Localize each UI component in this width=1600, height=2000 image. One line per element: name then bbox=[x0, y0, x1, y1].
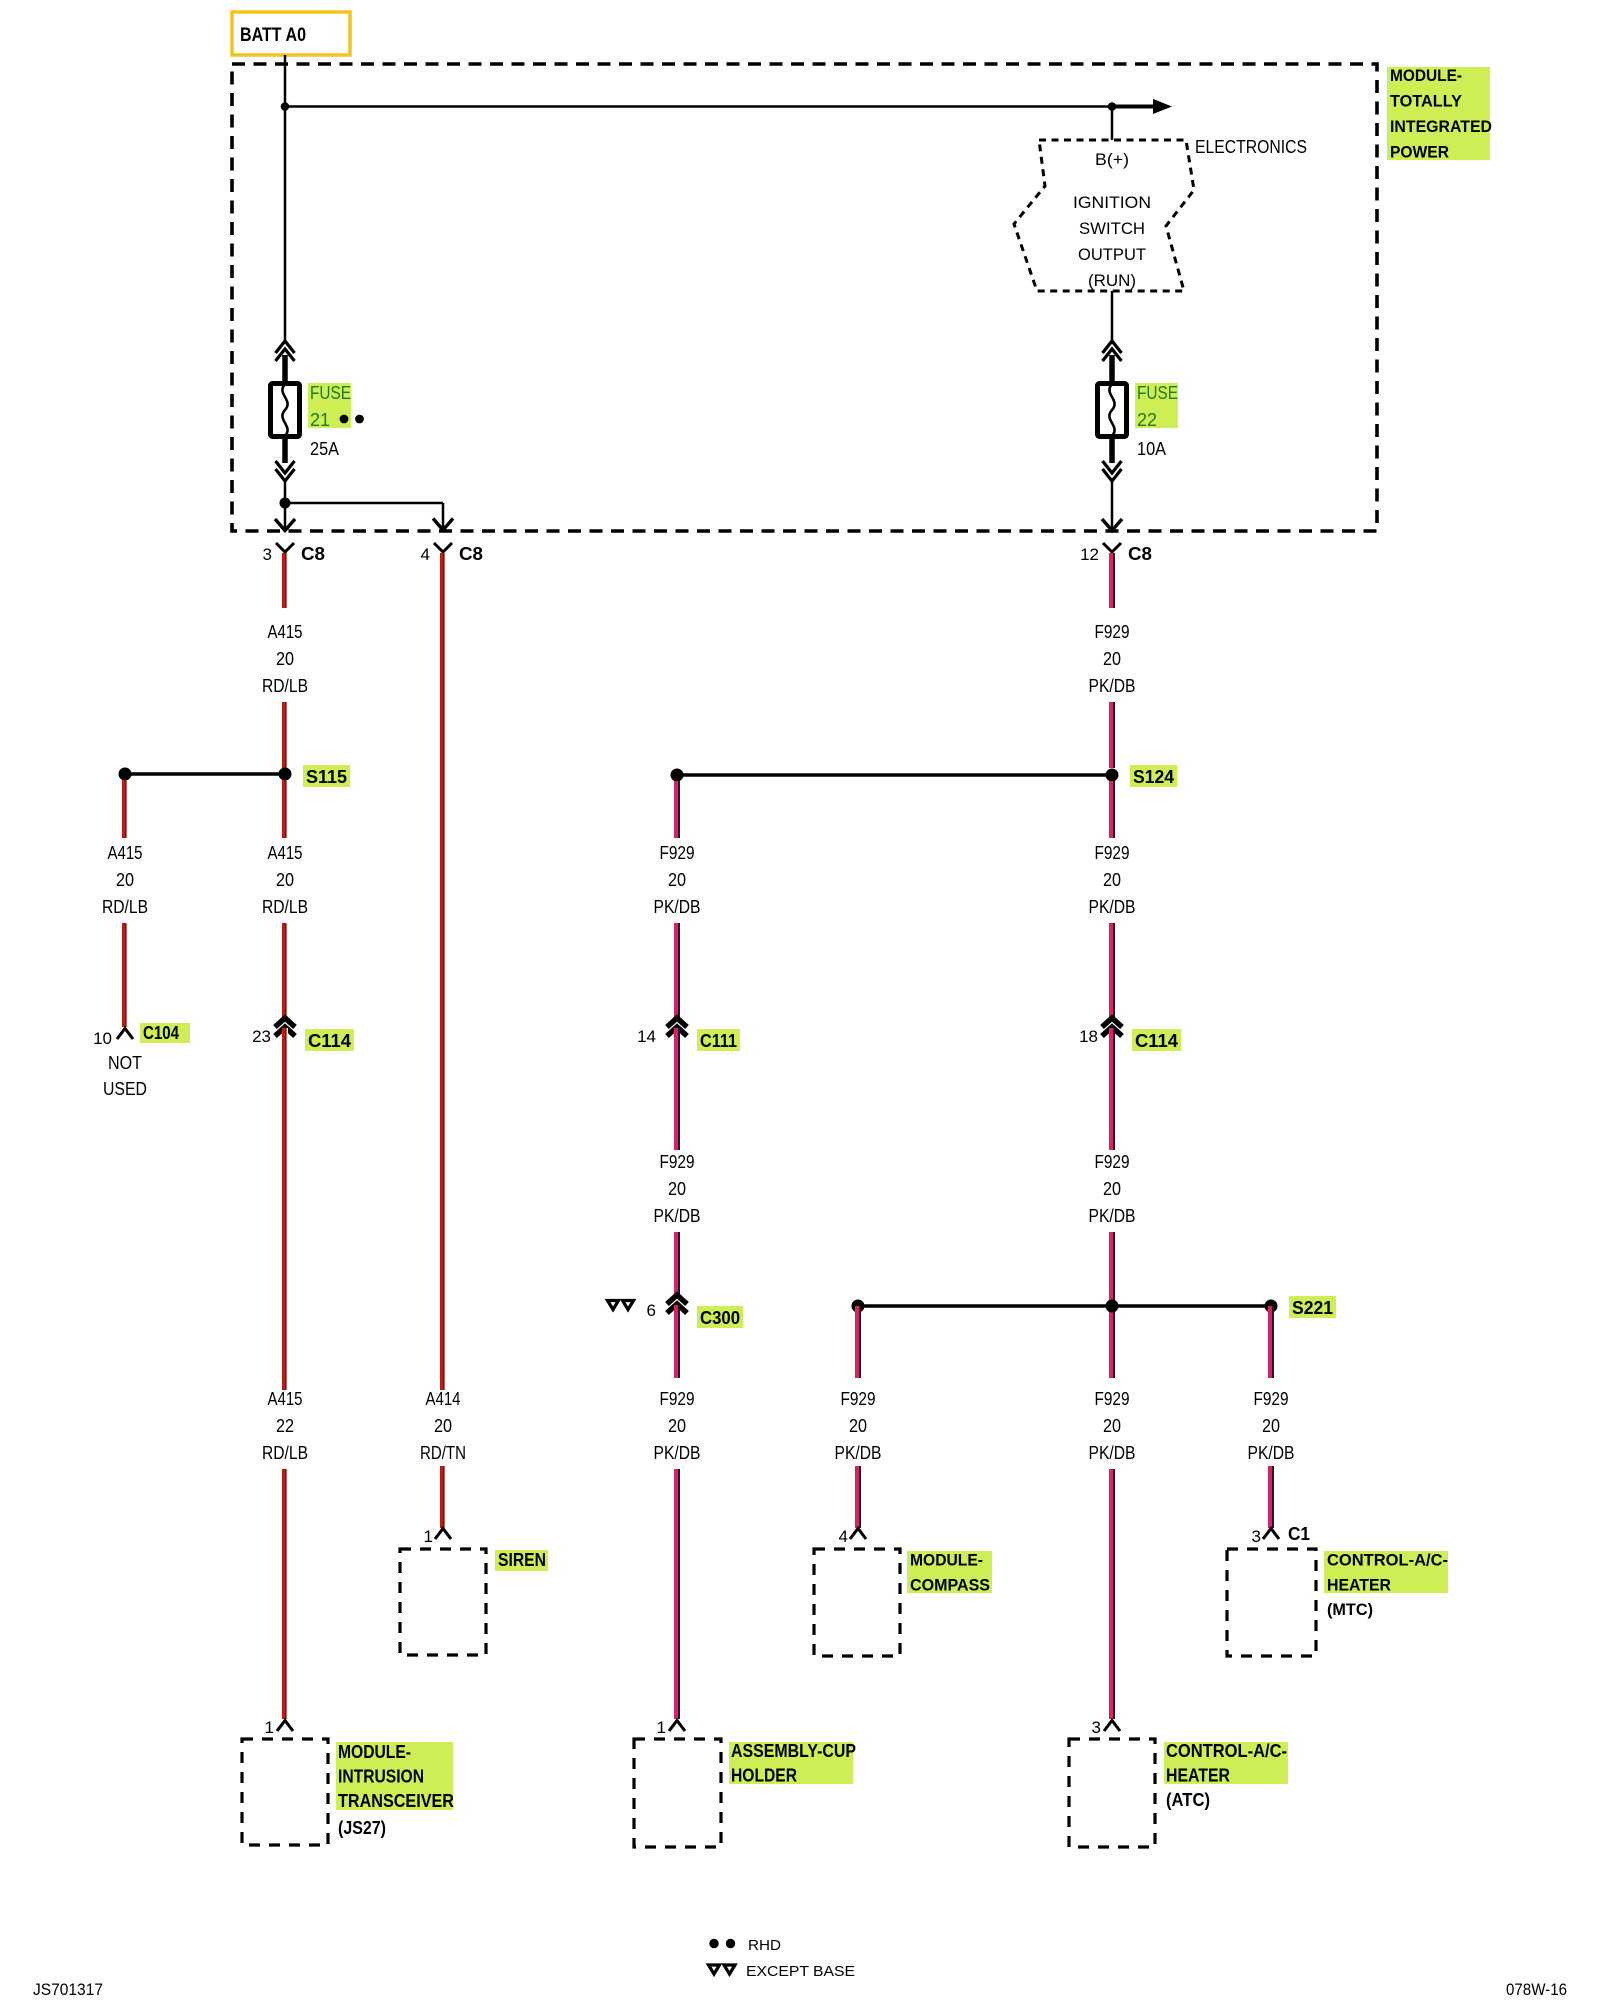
svg-text:RD/TN: RD/TN bbox=[420, 1443, 466, 1463]
svg-text:C114: C114 bbox=[1135, 1031, 1178, 1051]
wire bbox=[855, 1306, 861, 1378]
svg-text:JS701317: JS701317 bbox=[33, 1980, 103, 1999]
control-A/C-heater MTC box bbox=[1227, 1549, 1316, 1656]
svg-text:21: 21 bbox=[310, 410, 330, 430]
wire arrow to electronics bbox=[1112, 99, 1172, 114]
svg-text:20: 20 bbox=[668, 1416, 686, 1436]
battery feed label BATT A0 bbox=[232, 12, 350, 55]
svg-text:20: 20 bbox=[668, 870, 686, 890]
wire bbox=[282, 702, 288, 768]
svg-text:10: 10 bbox=[93, 1029, 112, 1048]
svg-text:C300: C300 bbox=[700, 1308, 740, 1328]
legend EXCEPT BASE bbox=[709, 1963, 856, 1980]
svg-text:23: 23 bbox=[252, 1027, 271, 1046]
wire label A415 20 RD/LB bbox=[262, 843, 308, 917]
wire bbox=[282, 923, 288, 1018]
svg-text:1: 1 bbox=[424, 1527, 433, 1546]
svg-text:SIREN: SIREN bbox=[498, 1550, 546, 1570]
svg-text:18: 18 bbox=[1079, 1027, 1098, 1046]
svg-text:A415: A415 bbox=[268, 622, 303, 642]
svg-text:22: 22 bbox=[1137, 410, 1157, 430]
connector label C114 bbox=[305, 1029, 354, 1051]
svg-text:PK/DB: PK/DB bbox=[654, 897, 701, 917]
svg-text:EXCEPT BASE: EXCEPT BASE bbox=[746, 1963, 855, 1980]
svg-text:20: 20 bbox=[668, 1179, 686, 1199]
svg-text:(JS27): (JS27) bbox=[338, 1818, 386, 1838]
svg-text:20: 20 bbox=[276, 870, 294, 890]
siren box bbox=[400, 1549, 486, 1655]
svg-text:PK/DB: PK/DB bbox=[1089, 1443, 1136, 1463]
svg-text:C8: C8 bbox=[301, 544, 325, 564]
connector label C114 bbox=[1132, 1029, 1181, 1051]
svg-text:C104: C104 bbox=[143, 1023, 179, 1043]
connector pin 1 of siren bbox=[424, 1527, 451, 1546]
svg-text:ELECTRONICS: ELECTRONICS bbox=[1195, 137, 1307, 157]
wire bbox=[674, 1028, 680, 1150]
svg-text:MODULE-: MODULE- bbox=[1390, 66, 1462, 85]
svg-text:IGNITION: IGNITION bbox=[1073, 193, 1151, 212]
svg-text:S115: S115 bbox=[306, 767, 347, 787]
svg-text:20: 20 bbox=[116, 870, 134, 890]
wire A415 22 RD/LB long run bbox=[282, 1028, 288, 1390]
RHD dots next to fuse 21 bbox=[340, 415, 349, 424]
wire into ignition switch output bbox=[1111, 107, 1114, 141]
svg-text:F929: F929 bbox=[660, 843, 695, 863]
svg-text:B(+): B(+) bbox=[1095, 150, 1129, 169]
wire bbox=[440, 1466, 446, 1528]
wire bbox=[1109, 781, 1115, 838]
wire label F929 20 PK/DB bbox=[1089, 622, 1136, 696]
connector C111 pin 14 bbox=[637, 1018, 687, 1046]
svg-text:MODULE-: MODULE- bbox=[338, 1742, 411, 1762]
svg-text:20: 20 bbox=[1103, 649, 1121, 669]
assembly-cup holder box bbox=[634, 1739, 721, 1847]
wire bbox=[1109, 702, 1115, 768]
module-intrusion transceiver box bbox=[242, 1739, 328, 1845]
svg-text:C114: C114 bbox=[308, 1031, 351, 1051]
svg-text:20: 20 bbox=[276, 649, 294, 669]
svg-text:20: 20 bbox=[1262, 1416, 1280, 1436]
wire label F929 20 PK/DB bbox=[654, 1152, 701, 1226]
wire branch from fuse 21 to pin 4 bbox=[285, 503, 443, 528]
connector C8 pin 3 bbox=[263, 543, 325, 564]
svg-text:F929: F929 bbox=[1095, 1389, 1130, 1409]
wire label F929 20 PK/DB bbox=[1089, 1152, 1136, 1226]
wire label A415 20 RD/LB bbox=[262, 622, 308, 696]
label CONTROL-A/C-HEATER (MTC) bbox=[1324, 1551, 1448, 1620]
svg-text:FUSE: FUSE bbox=[310, 383, 351, 403]
wire label F929 20 PK/DB bbox=[1248, 1389, 1295, 1463]
svg-text:FUSE: FUSE bbox=[1137, 383, 1178, 403]
svg-text:PK/DB: PK/DB bbox=[654, 1443, 701, 1463]
splice label S221 bbox=[1289, 1296, 1336, 1318]
svg-text:10A: 10A bbox=[1137, 439, 1166, 459]
svg-text:INTRUSION: INTRUSION bbox=[338, 1767, 424, 1787]
svg-text:COMPASS: COMPASS bbox=[910, 1576, 990, 1595]
svg-text:A415: A415 bbox=[108, 843, 143, 863]
svg-text:(MTC): (MTC) bbox=[1327, 1600, 1373, 1619]
svg-text:20: 20 bbox=[849, 1416, 867, 1436]
connector C1 pin 3 of A/C heater MTC bbox=[1252, 1524, 1310, 1546]
splice S115 bbox=[119, 768, 292, 781]
connector label C104 bbox=[140, 1023, 190, 1043]
wire label F929 20 PK/DB bbox=[835, 1389, 882, 1463]
svg-text:1: 1 bbox=[265, 1718, 274, 1737]
svg-text:HEATER: HEATER bbox=[1166, 1766, 1230, 1786]
svg-text:PK/DB: PK/DB bbox=[1089, 676, 1136, 696]
connector C114 pin 18 bbox=[1079, 1018, 1122, 1046]
svg-text:S124: S124 bbox=[1133, 767, 1174, 787]
wire bbox=[1109, 1232, 1115, 1378]
svg-text:C111: C111 bbox=[700, 1031, 737, 1051]
fuse 21 (25A) bbox=[271, 341, 300, 531]
connector C300 pin 6 bbox=[647, 1295, 687, 1320]
fuse 21 label bbox=[308, 383, 351, 430]
fuse 22 (10A) bbox=[1098, 341, 1127, 531]
wire bbox=[674, 1232, 680, 1295]
wire bbox=[1109, 1028, 1115, 1150]
svg-text:3: 3 bbox=[263, 545, 272, 564]
svg-text:PK/DB: PK/DB bbox=[1089, 1206, 1136, 1226]
svg-text:20: 20 bbox=[1103, 1416, 1121, 1436]
label MODULE-TOTALLY INTEGRATED POWER bbox=[1387, 66, 1492, 162]
svg-text:6: 6 bbox=[647, 1301, 656, 1320]
svg-text:(ATC): (ATC) bbox=[1166, 1790, 1210, 1810]
svg-text:OUTPUT: OUTPUT bbox=[1078, 245, 1146, 264]
fuse 22 label bbox=[1135, 383, 1178, 430]
label SIREN bbox=[495, 1550, 548, 1571]
ignition switch output (run) flag bbox=[1014, 140, 1194, 291]
wire bbox=[1268, 1466, 1274, 1528]
connector pin 1 of intrusion module bbox=[265, 1718, 293, 1737]
connector label C111 bbox=[697, 1029, 740, 1051]
svg-text:C8: C8 bbox=[1128, 544, 1152, 564]
label MODULE-COMPASS bbox=[907, 1551, 992, 1595]
wire bbox=[674, 1305, 680, 1378]
wire label A415 22 RD/LB bbox=[262, 1389, 308, 1463]
svg-text:TRANSCEIVER: TRANSCEIVER bbox=[338, 1791, 454, 1811]
wire bbox=[122, 780, 128, 838]
svg-text:(RUN): (RUN) bbox=[1088, 271, 1136, 290]
wire label F929 20 PK/DB bbox=[1089, 843, 1136, 917]
connector C114 pin 23 bbox=[252, 1018, 295, 1046]
svg-text:20: 20 bbox=[1103, 1179, 1121, 1199]
node junction below fuse 21 bbox=[280, 498, 291, 509]
svg-text:F929: F929 bbox=[660, 1152, 695, 1172]
svg-text:078W-16: 078W-16 bbox=[1506, 1980, 1567, 1999]
splice S124 bbox=[671, 769, 1119, 782]
svg-text:RD/LB: RD/LB bbox=[262, 676, 308, 696]
wire bbox=[282, 780, 288, 838]
svg-text:F929: F929 bbox=[660, 1389, 695, 1409]
connector C104 pin 10 (not used) bbox=[93, 1029, 133, 1049]
connector C8 pin 12 bbox=[1080, 543, 1152, 564]
wire label F929 20 PK/DB bbox=[654, 1389, 701, 1463]
svg-text:CONTROL-A/C-: CONTROL-A/C- bbox=[1166, 1741, 1287, 1761]
control-A/C-heater ATC box bbox=[1069, 1739, 1155, 1847]
node junction at bus left bbox=[281, 102, 290, 111]
wire bbox=[1109, 1469, 1115, 1719]
svg-text:F929: F929 bbox=[841, 1389, 876, 1409]
wire bbox=[1268, 1306, 1274, 1378]
legend RHD bbox=[709, 1937, 781, 1954]
svg-text:SWITCH: SWITCH bbox=[1079, 219, 1145, 238]
wire bbox=[282, 1469, 288, 1719]
svg-text:RD/LB: RD/LB bbox=[262, 897, 308, 917]
svg-text:PK/DB: PK/DB bbox=[1248, 1443, 1295, 1463]
wire from BATT A0 down to fuse 21 bbox=[284, 55, 287, 341]
arrow into connector C8 pin 4 bbox=[433, 519, 453, 531]
wire label F929 20 PK/DB bbox=[654, 843, 701, 917]
svg-text:INTEGRATED: INTEGRATED bbox=[1390, 117, 1492, 136]
wire bbox=[674, 1469, 680, 1719]
svg-text:PK/DB: PK/DB bbox=[1089, 897, 1136, 917]
svg-text:ASSEMBLY-CUP: ASSEMBLY-CUP bbox=[731, 1741, 856, 1761]
wire bbox=[674, 923, 680, 1018]
svg-text:4: 4 bbox=[421, 545, 430, 564]
svg-text:RD/LB: RD/LB bbox=[262, 1443, 308, 1463]
connector pin 1 of cup holder bbox=[657, 1718, 685, 1737]
label NOT USED bbox=[103, 1053, 147, 1099]
svg-text:20: 20 bbox=[1103, 870, 1121, 890]
wire bbox=[855, 1466, 861, 1528]
svg-text:S221: S221 bbox=[1292, 1298, 1333, 1318]
svg-text:RD/LB: RD/LB bbox=[102, 897, 148, 917]
wire label F929 20 PK/DB bbox=[1089, 1389, 1136, 1463]
wire horizontal bus to ignition switch output bbox=[285, 105, 1112, 108]
svg-text:3: 3 bbox=[1092, 1718, 1101, 1737]
label MODULE-INTRUSION TRANSCEIVER (JS27) bbox=[336, 1742, 454, 1838]
node junction above ignition switch output bbox=[1108, 102, 1117, 111]
wire F929 20 PK/DB from C8 pin 12 bbox=[1109, 553, 1115, 608]
splice S221 bbox=[852, 1300, 1278, 1313]
wire bbox=[674, 781, 680, 838]
label CONTROL-A/C-HEATER (ATC) bbox=[1164, 1741, 1288, 1810]
wire label A415 20 RD/LB bbox=[102, 843, 148, 917]
svg-text:RHD: RHD bbox=[748, 1937, 781, 1954]
wire label A414 20 RD/TN bbox=[420, 1389, 466, 1463]
svg-text:22: 22 bbox=[276, 1416, 294, 1436]
svg-text:A414: A414 bbox=[426, 1389, 461, 1409]
svg-text:C1: C1 bbox=[1288, 1524, 1310, 1544]
wire A415 20 RD/LB from C8 pin 3 bbox=[282, 553, 288, 608]
svg-text:F929: F929 bbox=[1254, 1389, 1289, 1409]
svg-text:CONTROL-A/C-: CONTROL-A/C- bbox=[1327, 1551, 1448, 1570]
svg-text:NOT: NOT bbox=[108, 1053, 142, 1073]
wire bbox=[122, 923, 128, 1027]
connector pin 4 of compass module bbox=[839, 1527, 866, 1546]
svg-text:4: 4 bbox=[839, 1527, 848, 1546]
wire from ignition switch output down to fuse 22 bbox=[1111, 291, 1114, 341]
module TIPM dashed outline bbox=[232, 64, 1377, 531]
svg-text:PK/DB: PK/DB bbox=[654, 1206, 701, 1226]
label ASSEMBLY-CUP HOLDER bbox=[729, 1741, 856, 1786]
svg-text:F929: F929 bbox=[1095, 1152, 1130, 1172]
svg-text:POWER: POWER bbox=[1390, 143, 1449, 162]
connector pin 3 of A/C heater ATC bbox=[1092, 1718, 1120, 1737]
svg-text:A415: A415 bbox=[268, 1389, 303, 1409]
connector C8 pin 4 bbox=[421, 543, 483, 564]
svg-text:F929: F929 bbox=[1095, 622, 1130, 642]
svg-text:USED: USED bbox=[103, 1079, 147, 1099]
module-compass box bbox=[814, 1549, 900, 1656]
svg-text:A415: A415 bbox=[268, 843, 303, 863]
wire bbox=[1109, 923, 1115, 1018]
connector label C300 bbox=[697, 1306, 743, 1328]
svg-text:MODULE-: MODULE- bbox=[910, 1551, 983, 1570]
svg-text:PK/DB: PK/DB bbox=[835, 1443, 882, 1463]
except-base triangles bbox=[608, 1301, 619, 1310]
wire A414 20 RD/TN from C8 pin 4 bbox=[440, 553, 446, 1390]
svg-text:1: 1 bbox=[657, 1718, 666, 1737]
svg-text:BATT A0: BATT A0 bbox=[240, 25, 306, 46]
svg-text:25A: 25A bbox=[310, 439, 339, 459]
svg-text:TOTALLY: TOTALLY bbox=[1390, 92, 1463, 111]
svg-text:20: 20 bbox=[434, 1416, 452, 1436]
svg-text:F929: F929 bbox=[1095, 843, 1130, 863]
splice label S124 bbox=[1130, 765, 1177, 787]
svg-text:HOLDER: HOLDER bbox=[731, 1766, 797, 1786]
svg-text:3: 3 bbox=[1252, 1527, 1261, 1546]
splice label S115 bbox=[303, 765, 350, 787]
svg-text:12: 12 bbox=[1080, 545, 1099, 564]
svg-text:C8: C8 bbox=[459, 544, 483, 564]
svg-text:14: 14 bbox=[637, 1027, 656, 1046]
svg-text:HEATER: HEATER bbox=[1327, 1576, 1391, 1595]
